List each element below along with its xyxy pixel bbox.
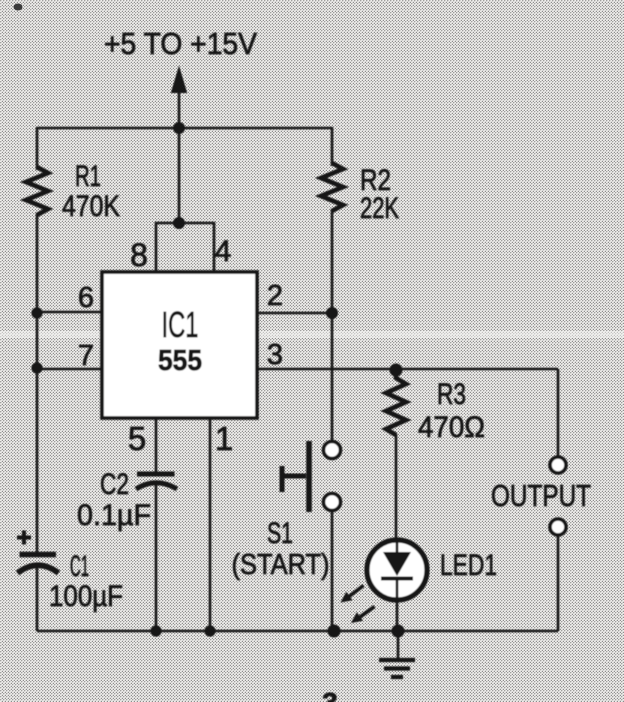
- output terminal upper: [550, 457, 566, 473]
- wire pin 1 to bottom rail: [209, 418, 212, 631]
- svg-text:R3: R3: [437, 378, 466, 411]
- svg-text:2: 2: [267, 280, 283, 312]
- IC U1: 555 timer IC1 body: [102, 272, 257, 418]
- svg-text:1: 1: [215, 420, 233, 457]
- svg-text:(START): (START): [232, 549, 330, 581]
- wire R2 to S1: [331, 209, 334, 442]
- svg-text:470Ω: 470Ω: [418, 411, 485, 444]
- junction pin 2 / R2: [326, 307, 338, 319]
- junction C2 / bottom rail: [150, 625, 161, 636]
- junction LED / bottom rail: [392, 625, 405, 638]
- wire output upper: [557, 369, 560, 457]
- svg-text:555: 555: [158, 345, 202, 377]
- junction supply / bracket: [173, 217, 185, 229]
- svg-text:R1: R1: [75, 160, 101, 193]
- junction pin 3 / R3: [390, 364, 403, 377]
- svg-text:4: 4: [215, 235, 232, 268]
- switch S1 upper contact: [324, 442, 341, 459]
- svg-text:22K: 22K: [360, 192, 399, 225]
- wire top power rail: [37, 127, 332, 130]
- power supply arrow: [171, 66, 187, 224]
- wire left vertical (top rail to R1): [36, 127, 39, 170]
- wire output lower: [557, 535, 560, 631]
- junction S1 / bottom rail: [328, 625, 341, 638]
- wire right vertical (top rail to R2): [331, 127, 334, 166]
- ground: [379, 631, 415, 677]
- svg-text:6: 6: [78, 282, 94, 314]
- switch S1 pushbutton: [282, 441, 309, 512]
- wire pin 6: [37, 311, 102, 314]
- wire C2 to bottom rail: [155, 483, 158, 631]
- wire pin 3 to output: [257, 368, 558, 371]
- output terminal lower: [550, 519, 566, 535]
- svg-text:7: 7: [78, 340, 94, 372]
- junction pin 1 / bottom rail: [204, 625, 215, 636]
- svg-text:C1: C1: [70, 550, 89, 583]
- wire bottom rail: [37, 630, 558, 633]
- capacitor C2: [136, 474, 177, 489]
- svg-text:8: 8: [130, 237, 148, 273]
- svg-text:0.1µF: 0.1µF: [77, 499, 151, 532]
- svg-text:IC1: IC1: [162, 304, 199, 345]
- junction pin 7 / left rail: [31, 362, 42, 373]
- junction pin 6 / left rail: [31, 307, 42, 318]
- resistor R2: [321, 163, 343, 211]
- capacitor C1 polarity +: [17, 531, 31, 545]
- LED light arrow lower: [351, 607, 375, 624]
- wire S1 to bottom rail: [331, 510, 334, 630]
- svg-text:3: 3: [267, 339, 283, 371]
- wire left vertical (R1 to C1): [36, 213, 39, 554]
- svg-text:100µF: 100µF: [49, 580, 123, 613]
- wire pin 7: [37, 368, 102, 371]
- svg-text:470K: 470K: [62, 190, 120, 223]
- svg-text:+5 TO +15V: +5 TO +15V: [104, 26, 257, 61]
- scan speck top-left: [14, 4, 23, 11]
- wire left vertical (C1 to bottom rail): [36, 563, 39, 631]
- wire pin 2: [257, 312, 332, 315]
- wire pin 5 to C2: [155, 418, 158, 473]
- capacitor C1: [18, 555, 59, 574]
- wire bracket pins 8 and 4: [156, 223, 214, 272]
- LED light arrow upper: [341, 586, 364, 603]
- svg-text:OUTPUT: OUTPUT: [491, 478, 591, 513]
- wire R3 to LED: [395, 434, 398, 545]
- switch S1 lower contact: [324, 494, 341, 511]
- svg-text:S1: S1: [267, 517, 293, 550]
- resistor R1: [26, 167, 48, 215]
- svg-text:5: 5: [128, 420, 146, 457]
- svg-text:3: 3: [322, 687, 338, 702]
- junction top rail / supply: [173, 122, 185, 134]
- LED LED1: [367, 540, 427, 631]
- resistor R3: [386, 372, 406, 435]
- svg-text:LED1: LED1: [440, 549, 497, 582]
- svg-text:C2: C2: [100, 468, 129, 501]
